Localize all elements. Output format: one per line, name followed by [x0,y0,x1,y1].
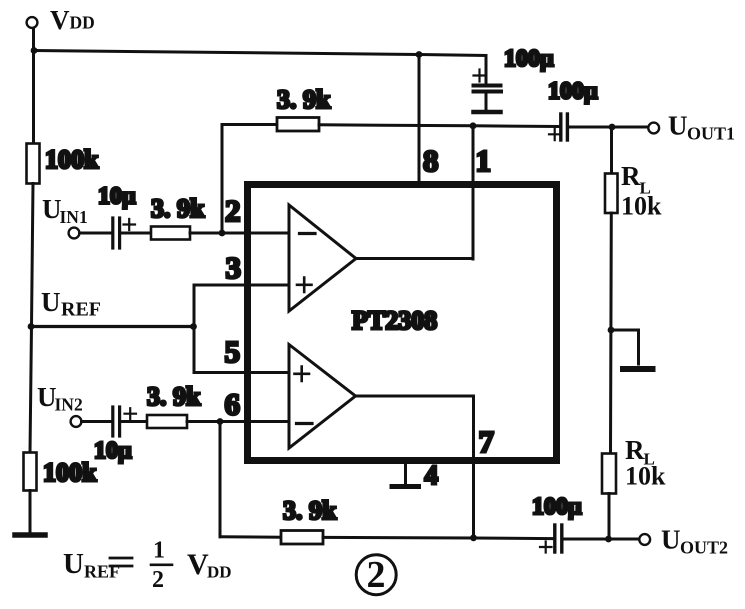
label VDD top [50,5,95,35]
junction pin8 rail [416,51,423,58]
ground mid [623,366,653,372]
junction mid ground [608,327,615,334]
svg-text:3. 9k: 3. 9k [283,496,337,525]
op-amp A2 minus input [297,422,313,425]
wire C1 to R3 [122,232,152,235]
label UIN1 [42,194,88,227]
wire top rail [34,51,486,56]
junction pin1 feedback [470,122,477,129]
svg-text:10μ: 10μ [94,438,132,464]
wire VDD stub [32,29,35,51]
junction node pin2 [219,230,226,237]
wire pin7 [472,396,475,538]
svg-text:IN2: IN2 [55,395,83,415]
wire pin1 [472,126,475,259]
op-amp A2 [289,345,356,449]
svg-text:100k: 100k [45,145,99,174]
wire left rail middle [30,184,33,453]
wire RL1 to RL2 [609,213,613,454]
ground pin4 [392,464,419,487]
svg-text:OUT1: OUT1 [687,124,735,144]
wire mid ground arm [611,330,639,364]
junction RL2 bottom [605,536,612,543]
input terminal UIN1 [69,228,80,239]
capacitor C1 10u [113,218,135,248]
svg-text:V: V [50,5,70,35]
label UIN2 [37,382,83,415]
svg-text:U: U [661,525,681,555]
resistor RL2 10k [602,454,616,494]
op-amp A2 plus input [295,367,310,382]
svg-text:R: R [625,435,645,465]
op-amp A1 minus input [300,232,316,235]
wire pin3-pin5 vertical [193,285,196,373]
junction UREF rail [28,323,35,330]
svg-text:3. 9k: 3. 9k [147,382,201,411]
svg-text:OUT2: OUT2 [680,538,728,558]
IC U1 PT2308 body [248,185,557,461]
wire R5 to pin6 [187,420,289,423]
label UOUT1 [668,111,735,144]
svg-text:DD: DD [70,13,95,33]
label RL1 [621,161,662,221]
svg-text:10μ: 10μ [98,184,136,210]
figure number circled 2 [356,554,396,596]
svg-text:1: 1 [476,143,492,178]
label UOUT2 [661,525,728,558]
capacitor C4 10u [113,407,136,436]
svg-text:R: R [621,161,641,191]
output terminal UOUT2 [639,534,650,545]
svg-text:4: 4 [425,460,439,490]
wire RL2 bottom [608,494,611,539]
junction pin7 bottom [470,534,477,541]
resistor R2 100k [24,453,37,491]
svg-text:U: U [63,548,84,580]
op-amp A1 [289,205,356,311]
svg-text:V: V [187,548,209,581]
wire C5 to UOUT2 [565,538,640,541]
svg-text:100μ: 100μ [548,79,598,105]
svg-text:DD: DD [207,563,232,582]
junction VDD rail [31,47,38,54]
wire C4 to R5 [122,420,148,423]
wire A2 output [356,395,474,398]
svg-text:100μ: 100μ [532,494,582,520]
ground C2 [474,110,501,115]
svg-text:2: 2 [152,567,164,593]
label UREF node [41,287,101,321]
wire A1 output [356,257,473,260]
output terminal UOUT1 [648,123,659,134]
wire pin5 [194,371,289,374]
wire R2 to ground [29,491,32,533]
wire pin8 [418,55,421,183]
wire RL1 top [610,127,613,174]
op-amp A1 plus input [297,278,312,293]
svg-text:IN1: IN1 [60,207,88,227]
svg-text:5: 5 [225,334,241,369]
formula VDD [187,548,232,582]
svg-text:U: U [668,111,688,141]
resistor R3 3.9k [151,227,190,240]
resistor R5 3.9k [147,415,187,428]
wire out1 row left [473,124,558,128]
svg-text:REF: REF [61,299,101,321]
wire C3 to UOUT1 [570,126,648,129]
capacitor C3 100u output [549,114,567,140]
wire feedback2 vertical [219,422,222,537]
svg-text:100k: 100k [43,458,97,487]
wire feedback2 bottom left [220,535,281,538]
junction node pin6 [217,418,224,425]
wire UIN1 to C1 [80,232,112,235]
resistor R6 3.9k feedback [281,531,323,545]
input terminal UIN2 [71,416,82,427]
svg-text:2: 2 [225,193,241,228]
resistor R4 3.9k feedback [277,118,319,132]
resistor RL1 10k [605,174,618,214]
wire feedback1 top right [319,125,473,126]
formula fraction bar [151,563,172,566]
wire feedback1 vertical [221,125,224,234]
capacitor C2 100u decoupling [474,56,502,110]
label RL2 [625,435,666,491]
svg-text:100μ: 100μ [504,46,554,72]
svg-text:6: 6 [225,387,241,422]
wire pin3 [194,284,289,287]
svg-text:10k: 10k [621,192,662,221]
svg-text:REF: REF [84,562,120,582]
formula UREF = 1/2 VDD [63,548,120,582]
svg-text:3: 3 [226,250,242,285]
capacitor C5 100u output [540,525,562,553]
svg-text:3. 9k: 3. 9k [277,85,331,114]
formula fraction 1/2 [152,538,165,594]
wire left rail upper [32,51,35,144]
wire feedback1 top left [222,123,277,126]
wire UIN2 to C4 [82,420,112,423]
svg-text:3. 9k: 3. 9k [151,194,205,223]
svg-text:7: 7 [479,424,495,459]
junction UREF mid [190,323,197,330]
svg-text:2: 2 [367,554,386,596]
power terminal VDD [27,17,38,28]
svg-text:PT2308: PT2308 [352,306,437,335]
resistor R1 100k [27,144,40,184]
svg-text:1: 1 [153,538,165,564]
junction RL1 branch [609,124,616,131]
wire UREF horizontal [32,325,194,328]
wire feedback2 bottom right [323,537,552,538]
svg-text:U: U [41,287,61,317]
ground bottom-left [15,532,45,538]
svg-text:8: 8 [423,143,439,178]
svg-text:10k: 10k [625,462,666,491]
formula equals sign [110,558,132,566]
wire R3 to pin2 [190,232,289,235]
